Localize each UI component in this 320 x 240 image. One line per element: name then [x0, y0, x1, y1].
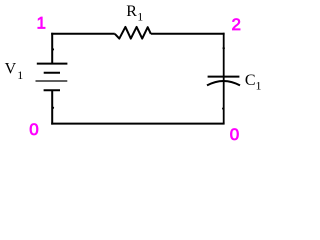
- pin junction dot on right wire lower: [222, 107, 224, 109]
- resistor R1 zigzag: [115, 27, 151, 39]
- svg-text:C: C: [245, 72, 256, 89]
- svg-text:1: 1: [17, 68, 23, 82]
- wire left vertical upper (node 1 down to battery): [51, 33, 53, 64]
- battery V1 plate 2 (short): [44, 72, 60, 74]
- svg-text:1: 1: [137, 10, 143, 24]
- svg-text:0: 0: [230, 125, 239, 144]
- svg-text:1: 1: [37, 13, 46, 32]
- wire left vertical lower (battery to node 0): [51, 90, 53, 124]
- capacitor C1 curved plate: [207, 81, 240, 85]
- wire top-right segment (resistor to node 2): [151, 33, 225, 35]
- svg-text:2: 2: [232, 15, 241, 34]
- battery V1 plate 3 (long): [36, 80, 68, 82]
- capacitor C1 straight plate: [208, 76, 240, 78]
- svg-text:R: R: [126, 3, 137, 20]
- label R1: [126, 3, 143, 24]
- pin junction dot on left lower wire: [52, 107, 54, 109]
- wire top-left segment (node 1 to resistor): [51, 33, 115, 35]
- svg-text:1: 1: [256, 79, 262, 93]
- wire bottom segment (node 0 to node 0): [51, 123, 224, 125]
- battery V1 plate 1 (long, +): [37, 63, 68, 65]
- label V1: [5, 61, 24, 82]
- pin junction dot on right wire upper: [223, 47, 225, 49]
- battery V1 plate 4 (short, -): [44, 89, 60, 91]
- label C1: [245, 72, 262, 93]
- pin junction dot on left wire: [52, 48, 54, 50]
- svg-text:0: 0: [29, 120, 38, 139]
- svg-text:V: V: [5, 61, 17, 78]
- wire right vertical (node 2 through capacitor to node 0): [223, 33, 225, 124]
